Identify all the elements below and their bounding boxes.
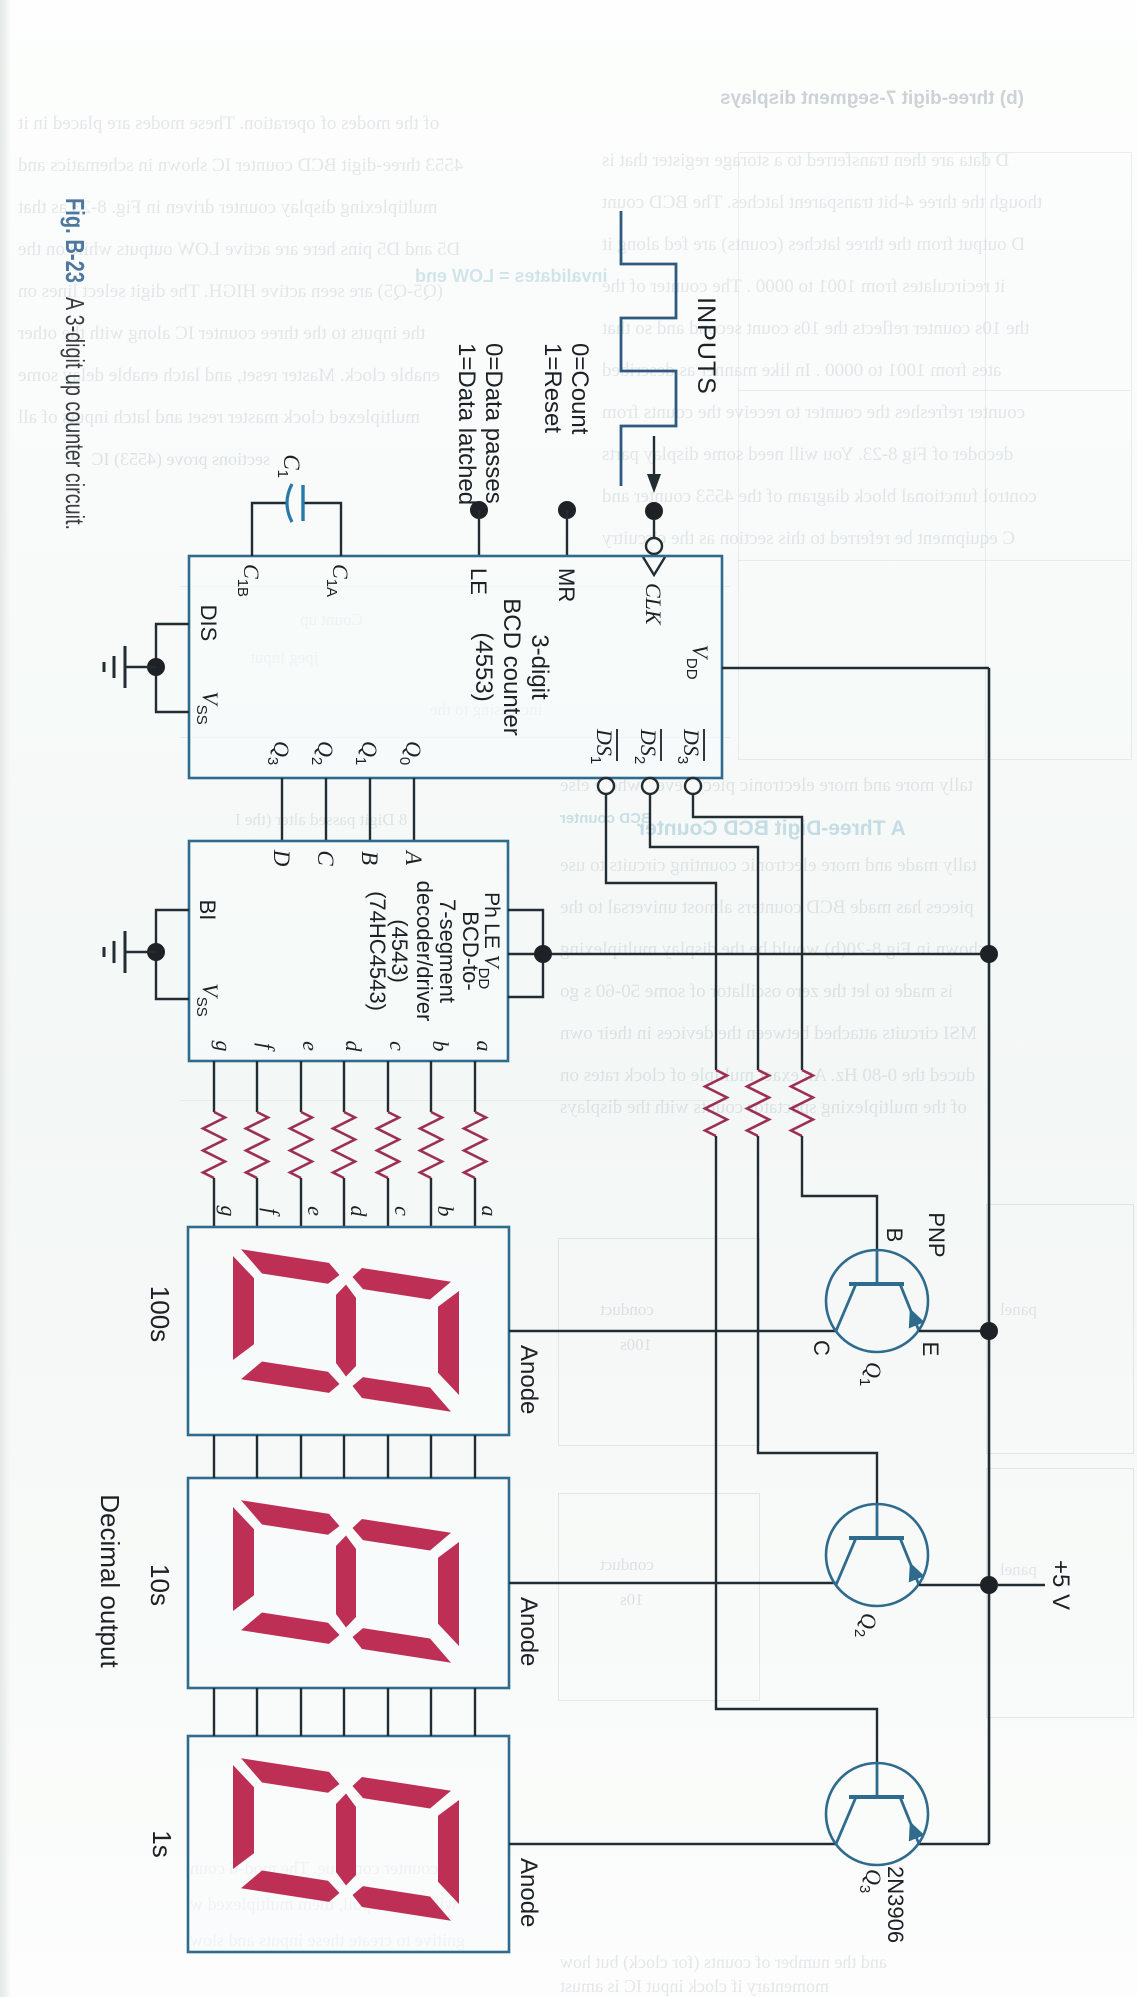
transistor Q2 PNP 2N3906 (826, 1504, 928, 1606)
wire segment b to display (430, 1178, 432, 1227)
wire bus e disp1-disp2 (300, 1435, 302, 1478)
node ground junction 4553 (147, 658, 165, 676)
wire DIS to ground (156, 624, 189, 667)
wire DS2 net (642, 778, 658, 794)
wire segment e from 4543 (300, 1061, 302, 1112)
svg-text:b: b (433, 1206, 458, 1217)
svg-text:(4553): (4553) (470, 632, 497, 701)
bleed-through from reverse side of page (18, 113, 439, 135)
svg-text:D: D (269, 849, 294, 867)
wire segment a to display (474, 1178, 476, 1227)
svg-text:a: a (477, 1206, 502, 1217)
wire BI to ground (156, 910, 189, 952)
wire anode of DISP2 (10s) (509, 1582, 836, 1584)
capacitor C1 (301, 485, 304, 521)
wire DS3 to Q1 base (802, 1136, 877, 1252)
wire segment b from 4543 (430, 1061, 432, 1112)
svg-text:b: b (428, 1041, 453, 1052)
wire VSS to ground (156, 667, 189, 712)
node CLK input terminal (645, 502, 663, 520)
svg-text:MR: MR (554, 568, 579, 602)
svg-text:BI: BI (195, 900, 220, 921)
wire segment g to display (213, 1178, 215, 1227)
wire anode of DISP1 (100s) (509, 1330, 836, 1332)
wire segment f from 4543 (256, 1061, 258, 1112)
wire C1A to capacitor (304, 503, 341, 556)
wire Ph stub (508, 910, 543, 997)
svg-text:2N3906: 2N3906 (883, 1866, 908, 1943)
wire LE/VDD line to +5V rail (508, 953, 989, 955)
wire bus a disp1-disp2 (474, 1435, 476, 1478)
svg-text:+5 V: +5 V (1047, 1560, 1074, 1610)
wire MR (566, 510, 568, 556)
resistor R-a (464, 1112, 486, 1178)
svg-text:Anode: Anode (515, 1597, 542, 1666)
wire segment d to display (343, 1178, 345, 1227)
svg-text:Q1: Q1 (856, 1362, 886, 1386)
svg-text:C1: C1 (274, 454, 304, 478)
ground symbol for 4553 (125, 666, 156, 668)
7-segment display DISP1 (100s) (188, 1227, 509, 1435)
transistor Q3 PNP 2N3906 (826, 1763, 928, 1865)
transistor Q1 PNP 2N3906 (826, 1250, 928, 1352)
resistor R8 (DS1 base resistor) (705, 1070, 727, 1136)
svg-text:g: g (216, 1206, 241, 1217)
svg-text:g: g (211, 1041, 236, 1052)
wire segment e to display (300, 1178, 302, 1227)
wire Q2 emitter to rail (919, 1584, 989, 1586)
ground symbol for 4543 (125, 951, 156, 953)
svg-text:0=Count: 0=Count (566, 343, 593, 435)
svg-text:Q2: Q2 (851, 1613, 881, 1637)
svg-text:LE: LE (466, 568, 491, 595)
wire +5V rail (988, 668, 991, 1844)
svg-text:d: d (341, 1041, 366, 1053)
wire DS1 net (598, 778, 614, 794)
wire bus d disp1-disp2 (343, 1435, 345, 1478)
wire bus c disp2-disp3 (387, 1688, 389, 1736)
node junction on +5V rail (980, 945, 998, 963)
node junction LE bracket (534, 945, 552, 963)
wire bus a disp2-disp3 (474, 1688, 476, 1736)
svg-text:Ph: Ph (480, 892, 503, 918)
wire bus e disp2-disp3 (300, 1688, 302, 1736)
wire segment f to display (256, 1178, 258, 1227)
svg-text:decoder/driver: decoder/driver (412, 881, 437, 1022)
resistor R-d (333, 1112, 355, 1178)
wire bus d disp2-disp3 (343, 1688, 345, 1736)
resistor R9 (DS2 base resistor) (747, 1070, 769, 1136)
IC U1 3-digit BCD counter 4553 (189, 556, 722, 778)
clock chevron on 4553 CLK pin (643, 557, 665, 575)
wire bus c disp1-disp2 (387, 1435, 389, 1478)
svg-text:(74HC4543): (74HC4543) (365, 891, 390, 1011)
svg-text:3-digit: 3-digit (526, 634, 553, 700)
svg-text:B: B (357, 851, 382, 865)
svg-text:LE: LE (480, 923, 503, 949)
wire DS1 to Q3 base (716, 1136, 877, 1765)
wire segment c from 4543 (387, 1061, 389, 1112)
svg-text:0=Data passes: 0=Data passes (480, 343, 507, 504)
resistor R-c (377, 1112, 399, 1178)
wire rail drop to Q3 emitter (918, 1843, 989, 1846)
resistor R-f (246, 1112, 268, 1178)
node MR input terminal (558, 501, 576, 519)
wire bus g disp2-disp3 (213, 1688, 215, 1736)
svg-text:1=Data latched: 1=Data latched (453, 343, 480, 505)
svg-text:C: C (313, 850, 338, 866)
wire segment a from 4543 (474, 1061, 476, 1112)
wire LE (478, 510, 480, 556)
svg-text:1=Reset: 1=Reset (539, 343, 566, 433)
wire bus f disp2-disp3 (256, 1688, 258, 1736)
wire bus b disp2-disp3 (430, 1688, 432, 1736)
node LE input terminal (470, 501, 488, 519)
wire +5V stub (998, 1584, 1045, 1586)
IC body fills (behind wires) (189, 556, 722, 778)
wire 4553 VDD to +5V rail (722, 667, 989, 669)
svg-text:7-segment: 7-segment (435, 899, 460, 1003)
wire Q1-B (369, 778, 371, 841)
svg-text:Anode: Anode (515, 1858, 542, 1927)
arrow into CLK (653, 436, 655, 480)
svg-text:f: f (259, 1208, 284, 1217)
resistor R-e (290, 1112, 312, 1178)
svg-text:E: E (918, 1342, 943, 1357)
wire DS2 to Q2 base (758, 1136, 877, 1506)
svg-text:a: a (472, 1041, 497, 1052)
svg-text:e: e (303, 1206, 328, 1216)
node ground junction 4543 (147, 943, 165, 961)
node Q1 emitter junction (980, 1322, 998, 1340)
wire bus b disp1-disp2 (430, 1435, 432, 1478)
wire segment c to display (387, 1178, 389, 1227)
wire Q1 emitter to rail (919, 1330, 989, 1332)
svg-text:PNP: PNP (924, 1212, 949, 1257)
svg-text:1s: 1s (147, 1830, 177, 1857)
svg-text:d: d (346, 1206, 371, 1218)
svg-text:A: A (401, 849, 426, 866)
svg-text:A 3-digit up counter circuit.: A 3-digit up counter circuit. (60, 297, 90, 530)
wire DS3 net (685, 778, 701, 794)
svg-text:e: e (298, 1041, 323, 1051)
resistor R-g (203, 1112, 225, 1178)
7-segment display DISP2 (10s) (188, 1478, 509, 1688)
svg-text:c: c (385, 1041, 410, 1051)
svg-text:Decimal output: Decimal output (95, 1494, 125, 1668)
svg-text:100s: 100s (145, 1286, 175, 1342)
svg-text:10s: 10s (145, 1564, 175, 1606)
svg-text:c: c (390, 1206, 415, 1216)
clock input waveform (621, 211, 676, 486)
resistor R10 (DS3 base resistor) (791, 1070, 813, 1136)
wire C1B to capacitor (252, 503, 286, 556)
svg-text:CLK: CLK (641, 583, 666, 626)
wire VSS 4543 to ground (156, 952, 189, 999)
svg-text:INPUTS: INPUTS (692, 297, 720, 395)
svg-text:(4543): (4543) (387, 919, 412, 983)
svg-text:Q3: Q3 (856, 1869, 886, 1893)
svg-text:C: C (809, 1340, 834, 1356)
wire Q2-C (325, 778, 327, 841)
svg-text:B: B (882, 1228, 907, 1243)
IC U2 BCD to 7-segment decoder 4543 (189, 841, 508, 1061)
wire Q3-D (281, 778, 283, 841)
wire bus g disp1-disp2 (213, 1435, 215, 1478)
wire bus f disp1-disp2 (256, 1435, 258, 1478)
wire segment g from 4543 (213, 1061, 215, 1112)
wire segment d from 4543 (343, 1061, 345, 1112)
wire Q0-A (413, 778, 415, 841)
7-segment display DISP3 (1s) (188, 1736, 509, 1952)
svg-text:Fig. B-23: Fig. B-23 (60, 198, 90, 283)
node Q2 emitter junction (980, 1576, 998, 1594)
svg-text:DIS: DIS (196, 605, 221, 642)
svg-text:Anode: Anode (515, 1345, 542, 1414)
wire anode of DISP3 (1s) (509, 1843, 837, 1845)
resistor R-b (420, 1112, 442, 1178)
svg-text:BCD counter: BCD counter (498, 598, 525, 735)
